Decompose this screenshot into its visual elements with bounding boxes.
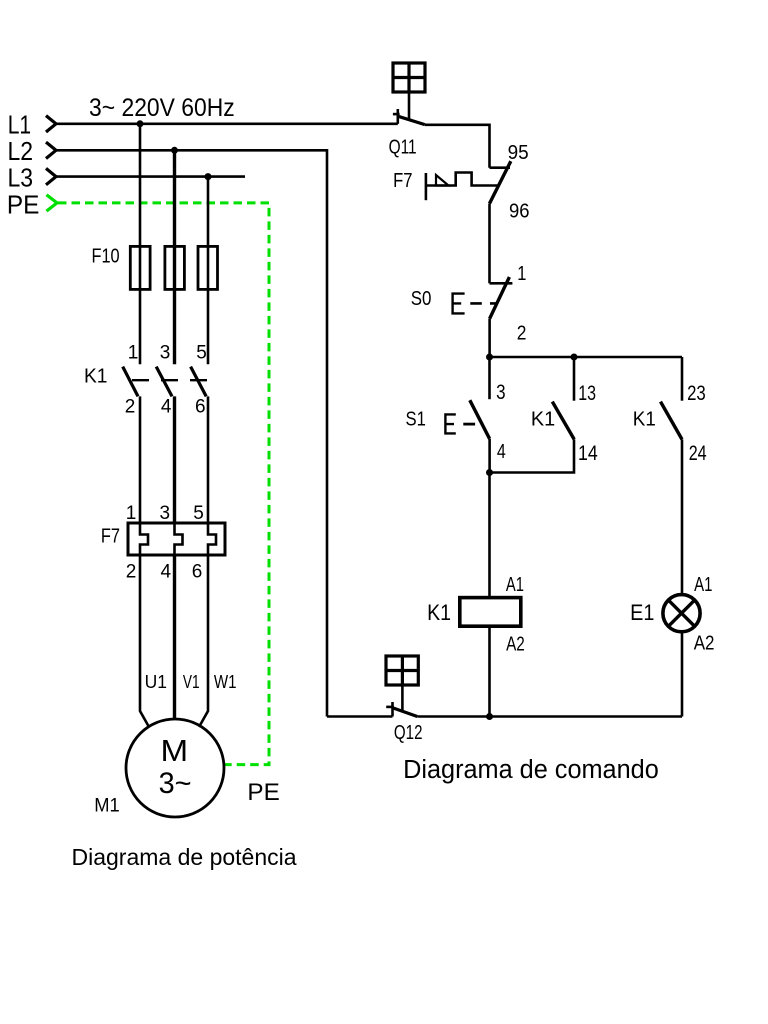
svg-text:2: 2: [517, 322, 527, 345]
svg-text:13: 13: [578, 382, 596, 406]
contactor K1 blade pole2: [156, 367, 172, 397]
lamp E1 circle: [663, 595, 700, 632]
svg-text:K1: K1: [531, 408, 555, 430]
svg-text:M1: M1: [94, 795, 119, 817]
wire V1 to motor: [173, 555, 176, 720]
svg-text:L3: L3: [8, 164, 34, 193]
wire node2 to K1-23: [681, 357, 684, 401]
wire pole2 K1 to F7: [173, 396, 176, 523]
overload F7 heater jog pole2: [175, 523, 183, 555]
wire pole3 K1 to F7: [207, 396, 210, 523]
svg-text:14: 14: [578, 442, 598, 466]
wire lamp to rail: [681, 632, 684, 717]
pushbutton S1 actuator dash: [463, 423, 475, 426]
node L2 arrow: [46, 142, 56, 158]
svg-text:1: 1: [517, 261, 526, 284]
svg-text:95: 95: [508, 141, 529, 164]
wire node2 to K1-13: [573, 357, 576, 401]
overload F7 actuator link: [426, 173, 498, 186]
svg-text:Diagrama de potência: Diagrama de potência: [72, 844, 297, 870]
fuse F10 pole 1: [130, 246, 150, 289]
svg-text:K1: K1: [427, 601, 451, 626]
svg-text:A1: A1: [694, 573, 712, 596]
svg-text:4: 4: [497, 439, 506, 462]
overload F7 trip flag triangle: [436, 175, 449, 186]
svg-text:4: 4: [161, 562, 172, 583]
junction L2-F10: [171, 147, 178, 154]
wire F7 to S0: [488, 204, 491, 284]
wire phase2 vertical: [173, 150, 176, 364]
breaker Q11 crossbar: [393, 113, 400, 116]
pushbutton S0 actuator dashes: [470, 302, 497, 305]
wire L3: [56, 175, 245, 178]
contact K1 13-14 blade: [552, 402, 574, 440]
wire PE green dashed: [58, 203, 269, 765]
junction L1-F10: [137, 120, 144, 127]
wire Q11 to F7: [425, 125, 490, 168]
wire Q12 box to blade: [401, 685, 404, 713]
svg-text:PE: PE: [7, 191, 40, 220]
pushbutton S1 actuator: [445, 414, 455, 433]
contact F7 blade: [490, 161, 511, 203]
wire bottom rail: [417, 715, 682, 718]
overload relay F7 box: [128, 523, 225, 555]
wire S0 to node: [488, 319, 491, 357]
breaker Q12 box: [386, 656, 418, 685]
wire pole1 K1 to F7: [139, 396, 142, 523]
pushbutton S0 blade: [490, 277, 510, 319]
wire node2 to S1: [488, 357, 491, 399]
svg-text:2: 2: [125, 397, 136, 418]
svg-text:U1: U1: [145, 672, 167, 693]
svg-text:3~: 3~: [159, 767, 192, 801]
contactor K1 blade pole3: [191, 367, 207, 397]
svg-text:A2: A2: [506, 632, 525, 655]
svg-text:L2: L2: [8, 138, 34, 167]
svg-text:W1: W1: [214, 672, 237, 693]
svg-text:M: M: [161, 733, 189, 768]
svg-text:A1: A1: [506, 573, 524, 596]
wire bottom rail left: [327, 715, 393, 718]
wire node2 horizontal: [490, 356, 683, 359]
svg-text:F7: F7: [393, 168, 412, 191]
contact F7 seat: [490, 166, 511, 169]
svg-text:2: 2: [126, 562, 137, 583]
overload F7 heater jog pole1: [140, 523, 148, 555]
wire K1-24 to lamp: [681, 439, 684, 594]
overload F7 actuator bar: [425, 173, 428, 200]
fuse F10 pole 3: [198, 246, 218, 289]
breaker Q11 fixed contact stub: [396, 109, 399, 124]
junction L3-F10: [205, 173, 212, 180]
breaker Q12 crossbar: [386, 706, 394, 709]
fuse F10 pole 2: [165, 246, 185, 289]
junction node2-K1: [571, 354, 578, 361]
svg-text:5: 5: [196, 342, 207, 363]
overload F7 heater jog pole3: [208, 523, 216, 555]
wire Q11 box to blade: [408, 92, 411, 120]
wire L1: [56, 123, 398, 126]
svg-text:K1: K1: [84, 365, 107, 387]
svg-text:PE: PE: [247, 779, 279, 806]
breaker Q11 box: [393, 63, 425, 92]
svg-text:3: 3: [496, 380, 505, 404]
wire L2: [56, 150, 327, 716]
svg-text:23: 23: [687, 382, 706, 405]
svg-text:1: 1: [126, 503, 137, 524]
svg-text:3~ 220V 60Hz: 3~ 220V 60Hz: [89, 94, 235, 122]
node L3 arrow: [46, 168, 56, 184]
pushbutton S1 blade: [470, 400, 490, 439]
junction node 2: [486, 354, 493, 361]
contactor K1 blade pole1: [123, 367, 138, 397]
wire node to coil K1: [488, 473, 491, 598]
pushbutton S0 seat: [490, 282, 513, 285]
svg-text:Q11: Q11: [389, 135, 417, 158]
wire U1 to motor: [140, 555, 149, 727]
svg-text:1: 1: [128, 342, 139, 363]
svg-text:S1: S1: [406, 407, 426, 430]
svg-text:6: 6: [192, 562, 203, 583]
wire K1-14 to node: [490, 439, 575, 472]
junction rail-coil: [486, 713, 493, 720]
wire phase3 vertical: [207, 177, 210, 365]
wire S1 to node: [488, 439, 491, 473]
wire coil to rail: [488, 626, 491, 716]
svg-text:6: 6: [195, 397, 206, 418]
wire W1 to motor: [199, 555, 208, 727]
svg-text:4: 4: [161, 397, 172, 418]
junction node S1/K1: [486, 469, 493, 476]
pushbutton S0 actuator: [453, 294, 465, 314]
svg-text:L1: L1: [8, 111, 31, 140]
svg-text:3: 3: [160, 503, 171, 524]
svg-text:A2: A2: [694, 631, 715, 654]
contact K1 23-24 blade: [661, 402, 683, 440]
svg-text:E1: E1: [630, 600, 654, 626]
motor M1 circle: [126, 719, 224, 817]
svg-text:K1: K1: [633, 408, 656, 431]
svg-text:3: 3: [160, 342, 171, 363]
svg-text:Q12: Q12: [394, 721, 423, 744]
coil K1 box: [460, 598, 521, 627]
svg-text:24: 24: [689, 442, 707, 466]
svg-text:Diagrama de comando: Diagrama de comando: [403, 756, 659, 784]
svg-text:5: 5: [193, 503, 204, 524]
svg-text:96: 96: [509, 199, 530, 222]
wire phase1 vertical: [139, 124, 142, 364]
node L1 arrow: [46, 116, 56, 132]
lamp E1 cross: [669, 600, 695, 626]
svg-text:S0: S0: [411, 286, 432, 309]
node PE arrow: [47, 195, 58, 211]
svg-text:V1: V1: [183, 672, 200, 692]
breaker Q12 fixed contact stub: [391, 702, 394, 717]
svg-text:F10: F10: [92, 244, 120, 267]
breaker Q11 blade: [398, 116, 425, 124]
contactor K1 mechanical link dashed: [132, 379, 207, 381]
svg-text:F7: F7: [101, 524, 120, 547]
breaker Q12 blade: [393, 708, 418, 717]
